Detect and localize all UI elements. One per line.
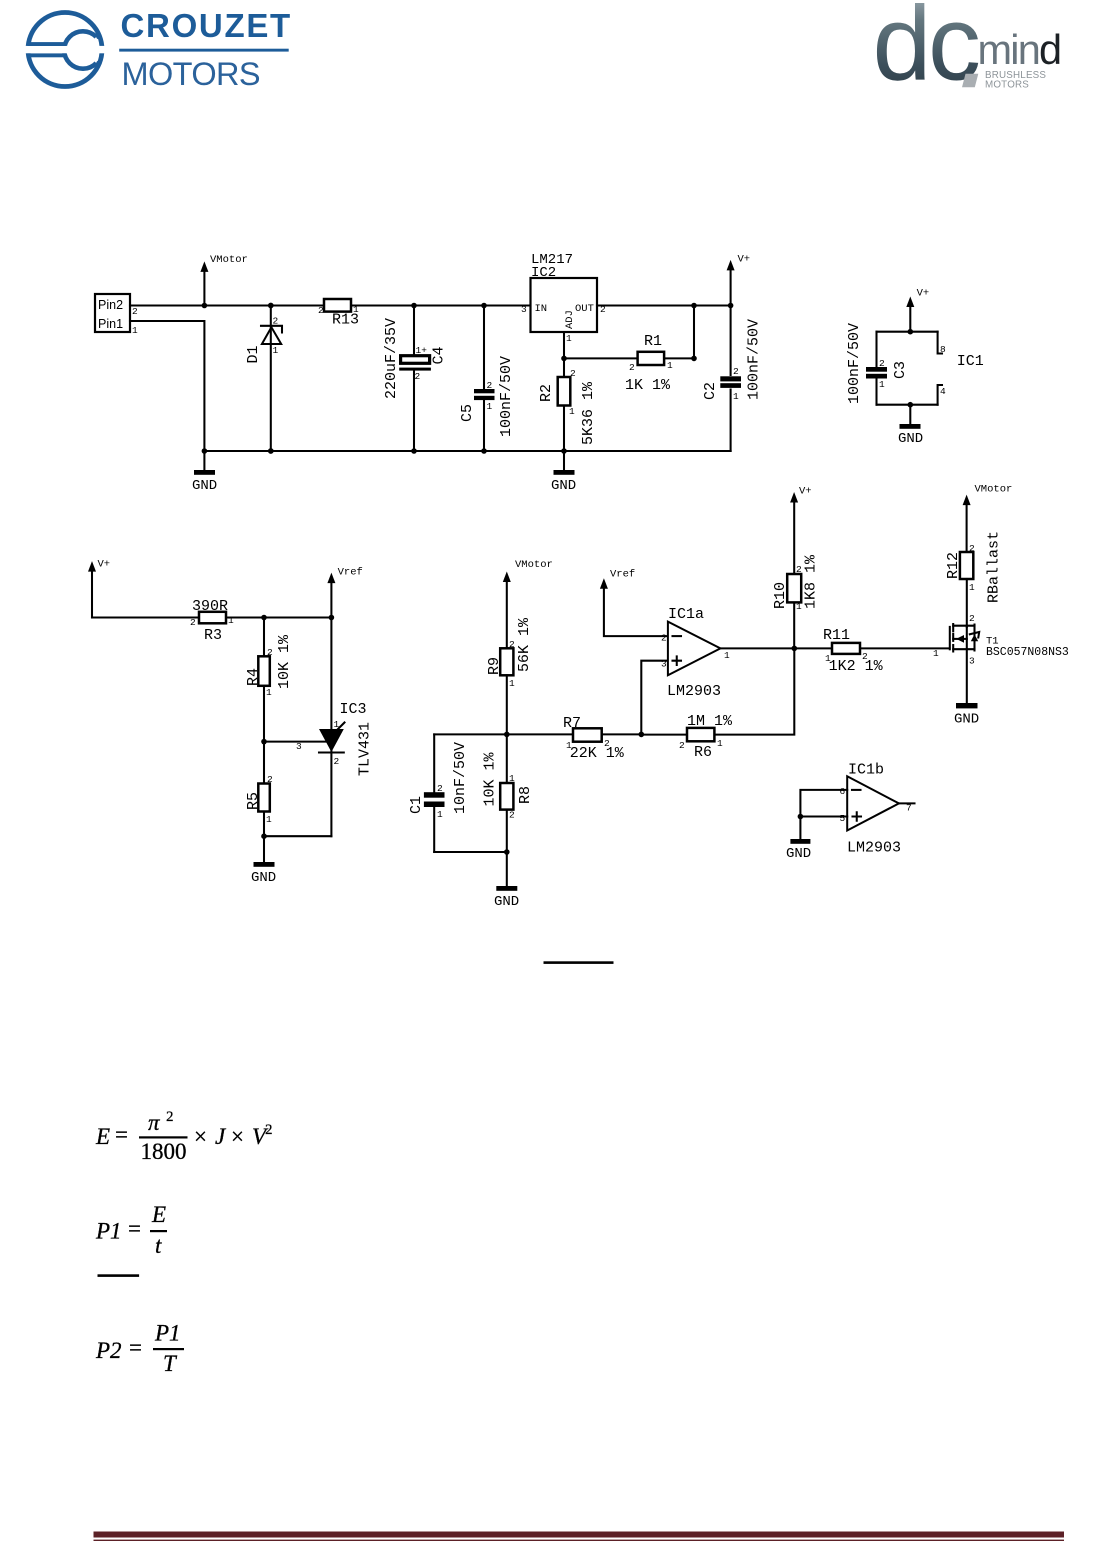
- svg-text:LM2903: LM2903: [847, 840, 901, 857]
- svg-text:P2: P2: [95, 1338, 122, 1363]
- svg-text:2: 2: [487, 380, 493, 391]
- svg-text:IC2: IC2: [531, 265, 556, 281]
- svg-text:2: 2: [604, 738, 610, 749]
- ground rail: [204, 450, 730, 452]
- svg-text:2: 2: [273, 316, 279, 327]
- svg-text:1: 1: [353, 304, 359, 315]
- svg-text:LM2903: LM2903: [667, 683, 721, 700]
- svg-text:1: 1: [566, 333, 572, 344]
- wire C1 bottom to R8 bottom: [434, 851, 507, 853]
- svg-text:2: 2: [969, 613, 975, 624]
- ground GND (left): [192, 448, 217, 494]
- svg-text:1: 1: [509, 678, 515, 689]
- svg-text:100nF/50V: 100nF/50V: [498, 356, 515, 437]
- wire V+ to Vref rail: [92, 616, 331, 618]
- svg-text:2: 2: [166, 1109, 174, 1125]
- svg-text:1: 1: [667, 360, 673, 371]
- crouzet logo icon: [19, 13, 111, 87]
- resistor R5: [245, 742, 273, 837]
- svg-text:1K 1%: 1K 1%: [625, 377, 671, 394]
- svg-text:R1: R1: [644, 333, 662, 350]
- svg-text:10K 1%: 10K 1%: [482, 751, 499, 806]
- resistor R9 56K: [486, 617, 533, 734]
- svg-text:R6: R6: [694, 744, 712, 761]
- node VMotor flag (R9): [503, 559, 553, 648]
- svg-text:Vref: Vref: [610, 569, 635, 581]
- svg-text:GND: GND: [898, 431, 923, 447]
- svg-text:10K 1%: 10K 1%: [276, 634, 293, 689]
- junction R4-R5: [261, 739, 267, 745]
- svg-text:5K36 1%: 5K36 1%: [580, 381, 597, 445]
- svg-text:E: E: [95, 1124, 110, 1149]
- svg-text:1: 1: [933, 648, 939, 659]
- op-amp IC1a LM2903: [661, 606, 730, 700]
- svg-text:4: 4: [940, 386, 946, 397]
- svg-text:22K 1%: 22K 1%: [570, 745, 625, 762]
- junction Vref rail: [329, 615, 335, 621]
- svg-text:2: 2: [509, 639, 515, 650]
- svg-text:1: 1: [879, 379, 885, 390]
- svg-text:MOTORS: MOTORS: [122, 56, 260, 92]
- node Vref flag: [327, 567, 362, 618]
- formula E = pi^2/1800 x J x V^2: [95, 1109, 273, 1164]
- svg-text:2: 2: [334, 756, 340, 767]
- resistor R11 1K2: [823, 627, 884, 675]
- node V+ flag (IC1): [906, 288, 929, 335]
- capacitor C4 220uF/35V: [383, 303, 448, 454]
- svg-text:1: 1: [487, 401, 493, 412]
- svg-text:R8: R8: [517, 786, 534, 804]
- svg-text:2: 2: [629, 362, 635, 373]
- svg-text:T: T: [163, 1351, 178, 1376]
- ground GND (under R2): [551, 451, 576, 494]
- junction ADJ node: [561, 356, 567, 362]
- formula P2 = P1/T: [95, 1321, 184, 1377]
- wire IC1b output: [899, 802, 915, 804]
- svg-text:1M 1%: 1M 1%: [687, 713, 733, 730]
- wire ADJ to R1 to OUT: [564, 306, 694, 359]
- svg-text:2: 2: [267, 647, 273, 658]
- svg-text:IC1a: IC1a: [668, 606, 704, 623]
- connector Pin1/Pin2: [95, 294, 138, 336]
- svg-text:Vref: Vref: [338, 567, 363, 579]
- svg-text:×: ×: [231, 1124, 244, 1149]
- svg-text:R12: R12: [945, 552, 962, 579]
- capacitor C2 100nF/50V: [702, 306, 763, 452]
- svg-text:GND: GND: [786, 846, 811, 862]
- svg-text:IN: IN: [535, 303, 548, 315]
- wire R7 to junction to op-amp +: [602, 733, 642, 735]
- resistor R6 1M: [679, 713, 733, 761]
- svg-text:IC1b: IC1b: [848, 762, 884, 779]
- resistor R2 5K36: [538, 368, 597, 445]
- ground GND (IC1b): [786, 817, 811, 863]
- svg-text:2: 2: [862, 651, 868, 662]
- svg-text:2: 2: [661, 633, 667, 644]
- svg-text:J: J: [215, 1124, 227, 1149]
- resistor R4 10K: [245, 618, 293, 742]
- svg-text:3: 3: [521, 304, 527, 315]
- svg-text:3: 3: [969, 656, 975, 667]
- capacitor C3 100nF/50V: [846, 323, 909, 405]
- svg-text:GND: GND: [251, 870, 276, 886]
- junction R3-R4: [261, 615, 267, 621]
- footer rule thin: [94, 1540, 1065, 1541]
- svg-text:V+: V+: [917, 288, 930, 300]
- ground GND (under R5): [251, 836, 276, 886]
- svg-text:1: 1: [825, 653, 831, 664]
- svg-text:2: 2: [879, 358, 885, 369]
- svg-text:5: 5: [840, 813, 846, 824]
- svg-text:R7: R7: [563, 715, 581, 732]
- wire feedback R6 path: [641, 648, 794, 734]
- svg-text:3: 3: [661, 659, 667, 670]
- node V+ flag (left, row2): [88, 559, 110, 618]
- svg-text:Pin1: Pin1: [98, 317, 123, 331]
- svg-text:IC3: IC3: [340, 701, 367, 718]
- svg-text:10nF/50V: 10nF/50V: [452, 742, 469, 814]
- svg-text:VMotor: VMotor: [975, 484, 1013, 496]
- svg-text:mind: mind: [978, 26, 1061, 73]
- junction R7-R6 node: [639, 732, 645, 738]
- svg-text:RBallast: RBallast: [986, 531, 1003, 603]
- svg-text:P1: P1: [154, 1321, 181, 1346]
- svg-text:R5: R5: [245, 792, 262, 810]
- svg-text:1: 1: [569, 406, 575, 417]
- svg-text:R3: R3: [204, 627, 222, 644]
- node Vref flag (op-amp): [600, 569, 668, 637]
- svg-text:GND: GND: [954, 712, 979, 728]
- junction R5 ground node: [261, 833, 267, 839]
- capacitor C1 10nF/50V: [408, 734, 469, 852]
- wire op-amp output to MOSFET gate: [720, 647, 949, 649]
- svg-text:=: =: [115, 1122, 128, 1147]
- svg-text:TLV431: TLV431: [357, 722, 374, 776]
- svg-text:6: 6: [840, 786, 846, 797]
- junction R1 right: [691, 356, 697, 362]
- svg-text:MOTORS: MOTORS: [985, 80, 1029, 91]
- svg-text:1: 1: [132, 325, 138, 336]
- svg-text:C2: C2: [702, 382, 719, 400]
- svg-text:R2: R2: [538, 384, 555, 402]
- transistor T1 BSC057N08NS3: [933, 613, 1069, 703]
- node VMotor flag (R12): [963, 484, 1013, 553]
- svg-text:V+: V+: [738, 254, 751, 266]
- svg-text:VMotor: VMotor: [210, 254, 248, 266]
- svg-text:2: 2: [733, 366, 739, 377]
- resistor R10 1K8: [772, 554, 820, 612]
- svg-text:1: 1: [733, 391, 739, 402]
- svg-text:V+: V+: [98, 559, 111, 571]
- crouzet wordmark: [119, 7, 292, 92]
- svg-text:t: t: [155, 1233, 162, 1258]
- svg-text:V+: V+: [799, 486, 812, 498]
- resistor R8 10K: [482, 734, 535, 852]
- svg-text:R10: R10: [772, 582, 789, 609]
- op IC1 power block: [877, 332, 984, 405]
- wire IC2 OUT to V+: [597, 304, 731, 306]
- svg-text:2: 2: [437, 783, 443, 794]
- ground GND (IC1): [898, 402, 923, 447]
- svg-text:1: 1: [717, 738, 723, 749]
- svg-text:OUT: OUT: [575, 303, 594, 315]
- svg-text:1+: 1+: [416, 345, 428, 356]
- svg-text:2: 2: [509, 810, 515, 821]
- svg-text:=: =: [128, 1216, 141, 1241]
- svg-text:2: 2: [318, 305, 324, 316]
- resistor R13: [318, 299, 359, 329]
- svg-text:2: 2: [679, 740, 685, 751]
- node VMotor flag: [200, 254, 247, 308]
- svg-text:1: 1: [266, 814, 272, 825]
- capacitor C5 100nF/50V: [459, 303, 515, 454]
- wire R5 to Vref line bottom: [264, 835, 331, 837]
- wire R4 node to TLV431 ref: [264, 741, 326, 743]
- resistor R7 22K: [563, 715, 625, 762]
- op IC3 TLV431: [319, 618, 374, 837]
- svg-text:BSC057N08NS3: BSC057N08NS3: [986, 646, 1069, 659]
- svg-text:56K 1%: 56K 1%: [516, 617, 533, 672]
- svg-text:1: 1: [437, 809, 443, 820]
- svg-text:1: 1: [724, 650, 730, 661]
- resistor R12 RBallast: [945, 531, 1003, 627]
- underline segment (center): [544, 961, 614, 964]
- svg-text:1: 1: [266, 687, 272, 698]
- svg-text:1K8 1%: 1K8 1%: [803, 554, 820, 609]
- svg-text:8: 8: [940, 344, 946, 355]
- ground GND (under T1): [954, 703, 979, 728]
- dcmind logo: [873, 0, 1061, 103]
- svg-text:1: 1: [566, 740, 572, 751]
- svg-text:390R: 390R: [192, 598, 228, 615]
- svg-text:D1: D1: [245, 345, 262, 363]
- svg-text:ADJ: ADJ: [564, 310, 576, 329]
- ground GND (under R8): [494, 852, 519, 910]
- svg-text:IC1: IC1: [957, 353, 984, 370]
- svg-text:2: 2: [969, 543, 975, 554]
- op-amp IC1b LM2903: [840, 762, 912, 857]
- junction IC1b input node: [798, 814, 804, 820]
- svg-text:100nF/50V: 100nF/50V: [746, 319, 763, 400]
- junction R2 ground: [561, 448, 567, 454]
- svg-text:1: 1: [334, 719, 340, 730]
- resistor R3 390R: [190, 598, 234, 644]
- node V+ flag (R10): [790, 486, 812, 649]
- underline segment (left): [98, 1274, 140, 1277]
- svg-text:1: 1: [273, 345, 279, 356]
- resistor R1 1K: [625, 333, 673, 394]
- svg-text:2: 2: [570, 368, 576, 379]
- svg-text:C5: C5: [459, 404, 476, 422]
- svg-text:CROUZET: CROUZET: [121, 7, 292, 44]
- svg-text:C4: C4: [431, 346, 448, 364]
- wire Pin2 to IC2 IN: [130, 304, 531, 306]
- svg-text:P1: P1: [95, 1219, 122, 1244]
- svg-text:GND: GND: [494, 894, 519, 910]
- op IC2 LM217 regulator box: [521, 252, 606, 344]
- svg-text:100nF/50V: 100nF/50V: [846, 323, 863, 404]
- junction R9-R8 node: [504, 732, 510, 738]
- junction OUT wire: [691, 303, 697, 309]
- svg-text:1: 1: [509, 773, 515, 784]
- svg-text:×: ×: [194, 1124, 207, 1149]
- svg-text:C3: C3: [892, 361, 909, 379]
- svg-text:2: 2: [190, 617, 196, 628]
- wires IC1b inputs: [800, 790, 847, 817]
- svg-text:VMotor: VMotor: [515, 559, 553, 571]
- svg-text:1: 1: [228, 615, 234, 626]
- formula P1 = E/t: [95, 1202, 167, 1258]
- wire ADJ down: [563, 332, 565, 451]
- wire node to C1 and R7: [434, 733, 573, 735]
- svg-text:1800: 1800: [141, 1139, 187, 1164]
- svg-text:R11: R11: [823, 627, 850, 644]
- svg-text:3: 3: [296, 741, 302, 752]
- svg-text:C1: C1: [408, 796, 425, 814]
- svg-text:1K2 1%: 1K2 1%: [829, 658, 884, 675]
- footer rule thick: [94, 1532, 1065, 1538]
- wire Pin1 down to ground rail: [130, 321, 204, 451]
- svg-text:GND: GND: [192, 478, 217, 494]
- svg-text:R4: R4: [245, 668, 262, 686]
- svg-text:2: 2: [265, 1122, 273, 1138]
- svg-text:=: =: [129, 1335, 142, 1360]
- svg-text:π: π: [148, 1110, 161, 1135]
- junction R8 ground node: [504, 849, 510, 855]
- svg-text:2: 2: [267, 774, 273, 785]
- node V+ flag (over C2): [727, 254, 751, 309]
- svg-text:E: E: [151, 1202, 166, 1227]
- svg-text:R9: R9: [486, 657, 503, 675]
- svg-text:1: 1: [969, 582, 975, 593]
- svg-text:2: 2: [415, 371, 421, 382]
- svg-text:1: 1: [796, 601, 802, 612]
- svg-text:Pin2: Pin2: [98, 298, 123, 312]
- svg-text:GND: GND: [551, 478, 576, 494]
- svg-text:2: 2: [796, 564, 802, 575]
- svg-text:220uF/35V: 220uF/35V: [383, 318, 400, 399]
- diode D1 (zener): [245, 303, 282, 454]
- svg-text:2: 2: [132, 306, 138, 317]
